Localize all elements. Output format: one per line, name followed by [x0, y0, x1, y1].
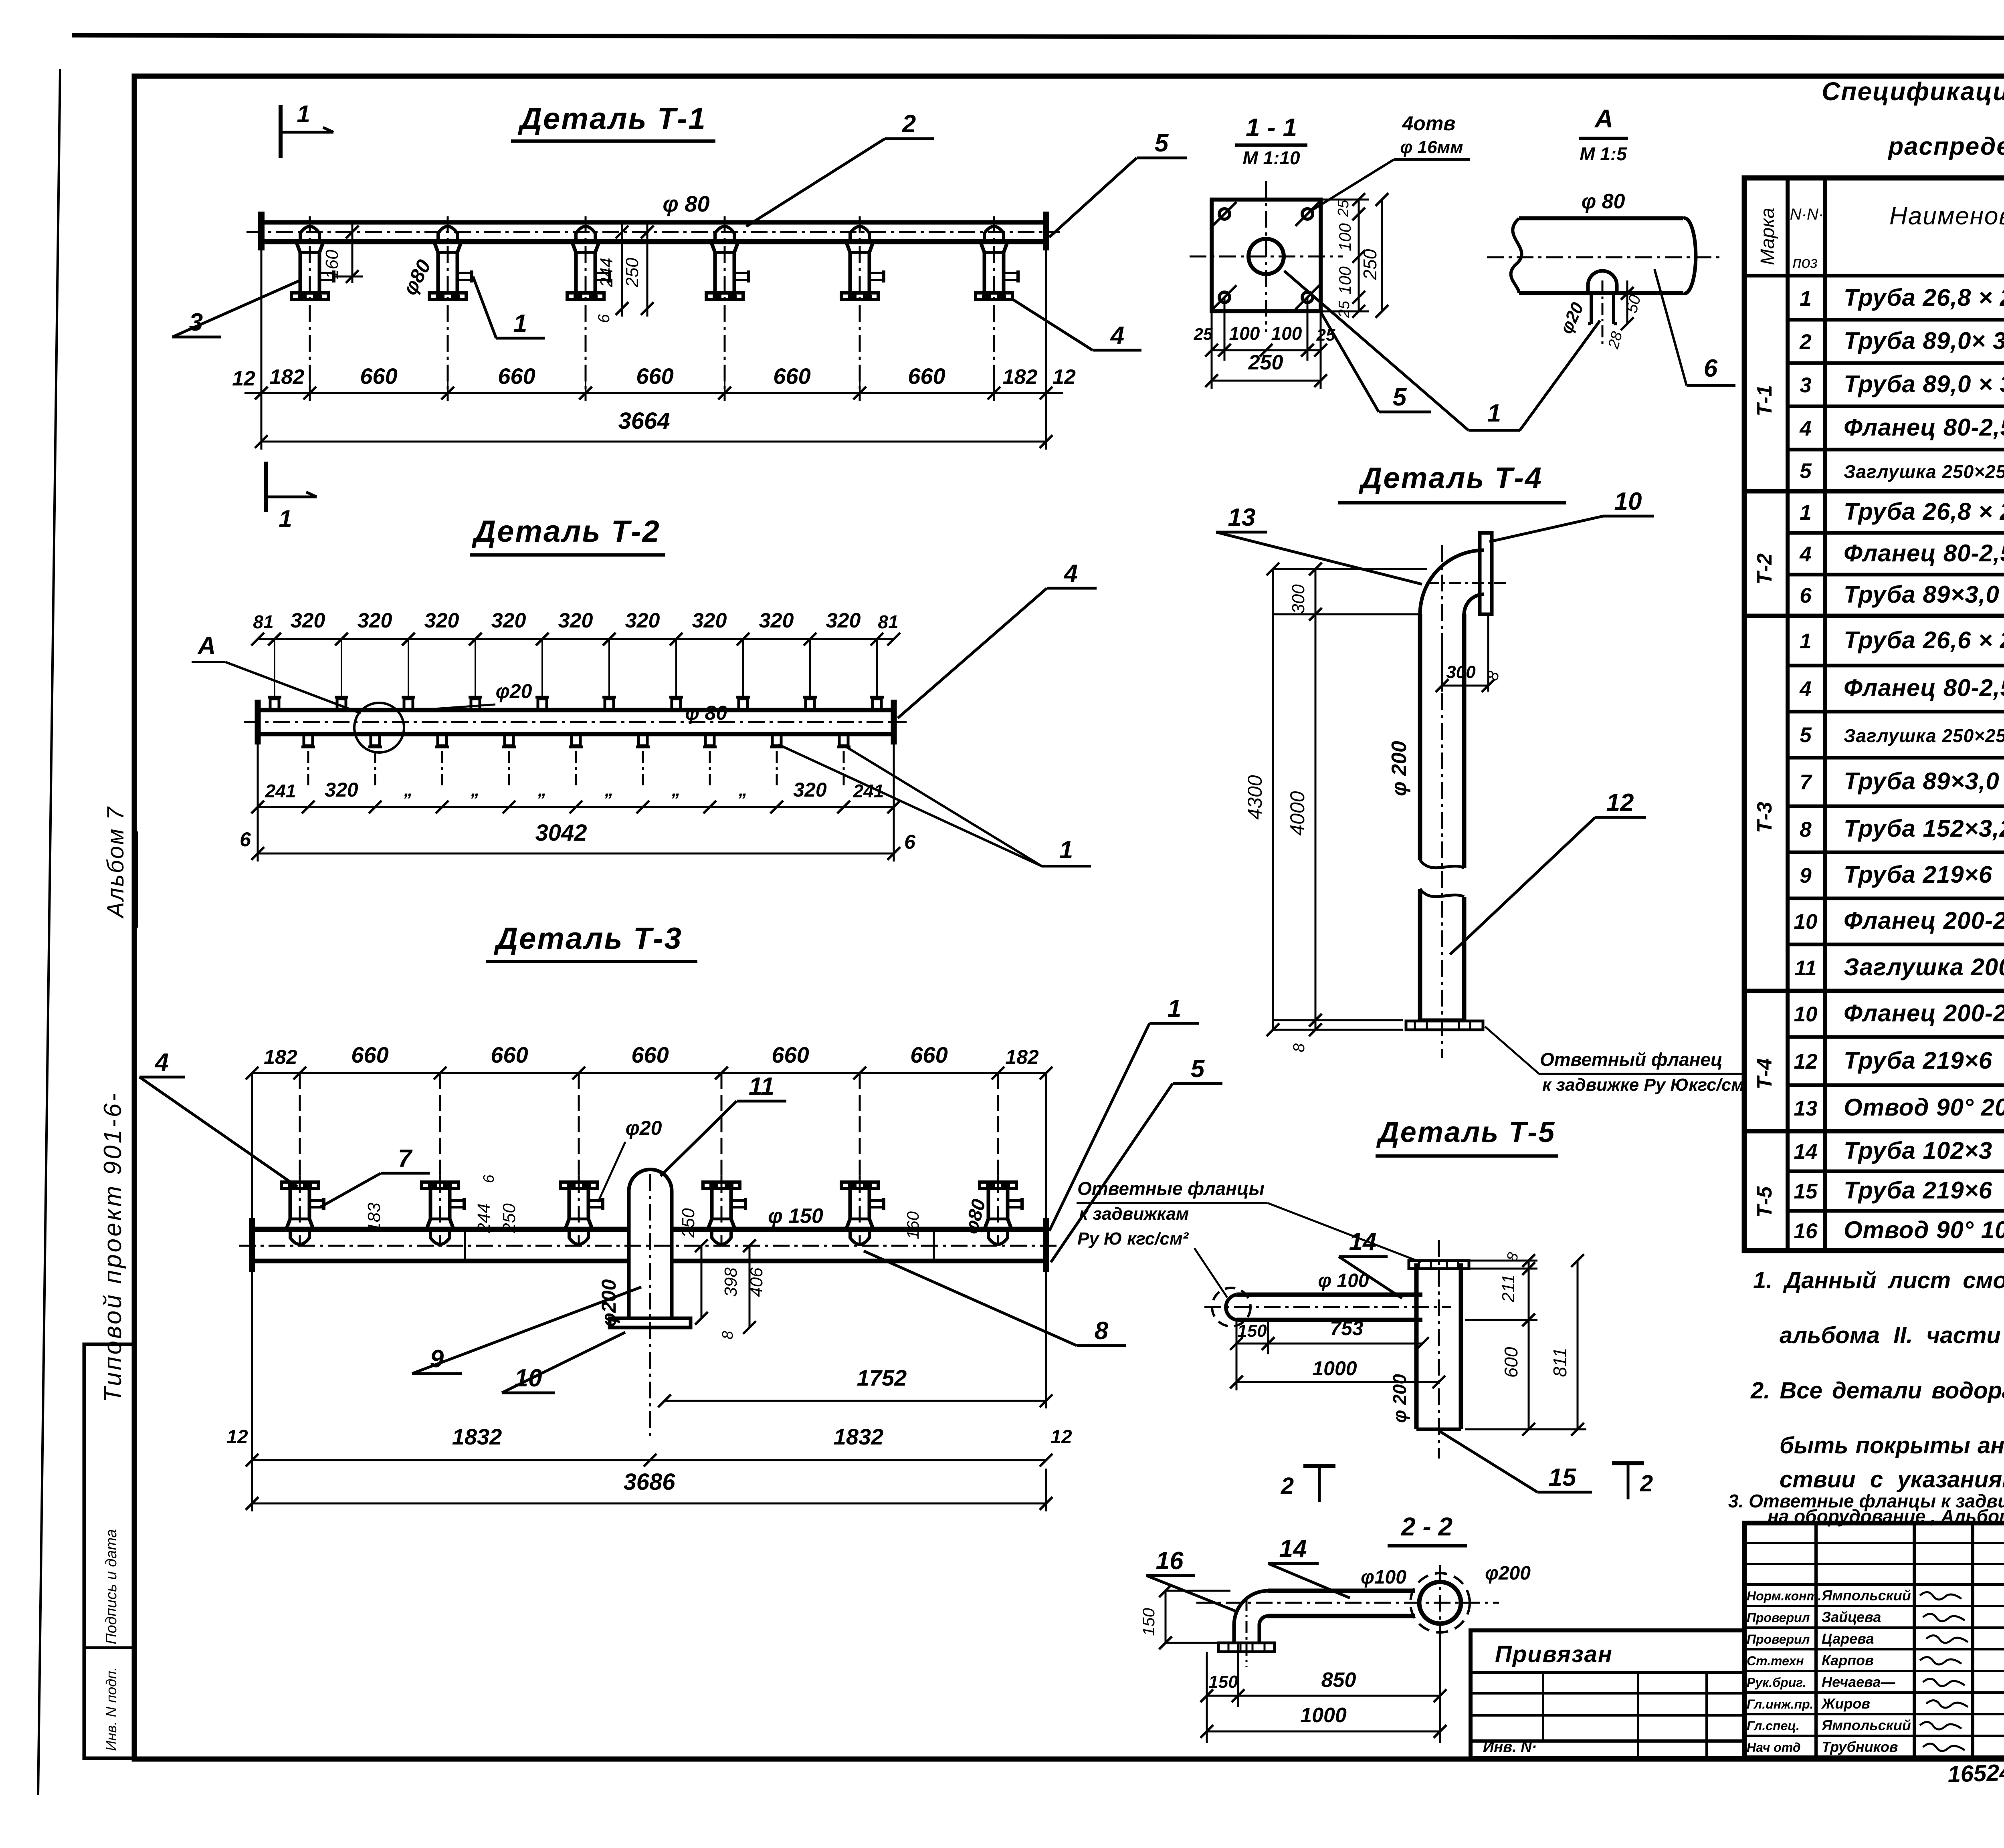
view A nozzle tube: [1590, 293, 1593, 324]
T-3 left end flange: [249, 1218, 255, 1272]
T-1 right end flange: [1043, 212, 1049, 250]
T-1 nozzle 2 bottom flange (item 4): [429, 293, 466, 299]
T-2 top nozzle 7: [672, 699, 681, 710]
T-3 riser centerline: [649, 1174, 651, 1438]
svg-text:100: 100: [1335, 266, 1354, 295]
svg-text:Заглушка 250×250; δ=12мм: Заглушка 250×250; δ=12мм: [1844, 461, 2004, 482]
T-1 nozzle 6 (item 3): [980, 242, 1008, 293]
section cut marker 1 lower: [264, 462, 268, 512]
svg-text:244: 244: [597, 258, 616, 287]
T-2 overall dimension 3042: [257, 743, 259, 861]
T-2 bottom nozzle 7: [705, 734, 714, 746]
T-5 dim 150 753: [1236, 1320, 1238, 1354]
svg-text:Отвод 90° 200 с32: Отвод 90° 200 с32: [1844, 1094, 2004, 1121]
T-5 vertical pipe centerline: [1438, 1240, 1440, 1459]
svg-text:150: 150: [1208, 1672, 1238, 1692]
svg-text:6: 6: [595, 314, 613, 323]
svg-text:1: 1: [1487, 399, 1501, 427]
svg-text:12: 12: [1050, 1426, 1072, 1448]
T-3 dim 1832+1832: [251, 1270, 253, 1469]
svg-text:15: 15: [1549, 1464, 1577, 1491]
T-4 top flange plate (item 10): [1480, 533, 1492, 614]
svg-text:6: 6: [904, 831, 916, 853]
svg-text:Труба 26,6 × 2,8: Труба 26,6 × 2,8: [1844, 627, 2004, 654]
svg-text:1: 1: [1800, 287, 1811, 311]
svg-text:„: „: [537, 780, 547, 800]
svg-text:753: 753: [1330, 1317, 1364, 1340]
svg-text:150: 150: [1237, 1321, 1267, 1341]
svg-text:4: 4: [1799, 543, 1811, 566]
svg-text:4: 4: [1799, 677, 1811, 701]
svg-text:Фланец 80-2,5: Фланец 80-2,5: [1844, 674, 2004, 701]
T-3 nozzle 1 centerline: [299, 1176, 301, 1246]
svg-text:2: 2: [1799, 330, 1811, 354]
svg-text:Труба 89,0× 3,0: Труба 89,0× 3,0: [1844, 327, 2004, 354]
svg-text:Ответные фланцы: Ответные фланцы: [1077, 1178, 1265, 1199]
T-3 pipe centerline: [239, 1245, 1060, 1247]
svg-text:альбома II. части 1 и 2.: альбома II. части 1 и 2.: [1780, 1322, 2004, 1348]
T-5 pipe left end cap: [1226, 1295, 1236, 1320]
svg-text:660: 660: [910, 1042, 947, 1067]
T-2 bottom nozzle 1: [304, 734, 313, 746]
2-2 bottom dims 150 850: [1206, 1652, 1208, 1743]
svg-text:320: 320: [826, 609, 861, 632]
T-3 riser bottom flange (item 10): [610, 1318, 691, 1327]
1-1 right total 250: [1381, 200, 1383, 311]
svg-text:660: 660: [360, 363, 397, 389]
svg-text:„: „: [404, 780, 413, 800]
svg-text:150: 150: [1139, 1608, 1158, 1636]
T-5 left end dashed flange circle: [1212, 1288, 1250, 1326]
2-2 centerlines: [1196, 1602, 1499, 1604]
T-2 bottom nozzle 4: [505, 734, 513, 746]
svg-text:1: 1: [513, 310, 527, 337]
svg-text:182: 182: [270, 365, 305, 389]
T-1 pipe centerline: [246, 231, 1060, 233]
svg-text:250: 250: [622, 258, 642, 288]
1-1 leader to item 1 (merged label below): [1284, 271, 1469, 430]
sheet left paper edge line: [38, 69, 60, 1795]
section marker 2 right: [1612, 1461, 1644, 1465]
svg-text:10: 10: [515, 1364, 542, 1392]
svg-text:Деталь Т-3: Деталь Т-3: [493, 922, 682, 956]
svg-text:поз: поз: [1793, 254, 1818, 271]
svg-text:Фланец 80-2,5: Фланец 80-2,5: [1844, 540, 2004, 567]
svg-text:5: 5: [1155, 129, 1169, 157]
svg-text:Т-5: Т-5: [1753, 1186, 1776, 1218]
spec table header bottom line: [1744, 274, 2004, 278]
svg-text:16524′-1 Г: 16524′-1 Г: [1947, 1757, 2004, 1787]
T-2 bottom dimension row 241+320x8+241: [258, 806, 894, 808]
svg-text:5: 5: [1800, 723, 1812, 747]
svg-text:6: 6: [240, 828, 251, 851]
svg-text:Подпись и дата: Подпись и дата: [103, 1529, 120, 1644]
svg-text:8: 8: [719, 1331, 736, 1339]
view A pipe phi80: [1519, 216, 1683, 220]
spec table column lines: [1786, 178, 1790, 1251]
svg-text:Деталь Т-2: Деталь Т-2: [471, 514, 660, 549]
T-3 main pipe phi150: [252, 1227, 629, 1232]
T-4 lower pipe: [1418, 889, 1422, 1020]
svg-text:Т-4: Т-4: [1753, 1058, 1776, 1089]
svg-text:Нечаева—: Нечаева—: [1822, 1674, 1895, 1690]
svg-text:3042: 3042: [535, 820, 587, 846]
svg-text:660: 660: [351, 1042, 388, 1067]
svg-text:14: 14: [1279, 1535, 1307, 1563]
T-2 top nozzle 8: [739, 699, 747, 710]
svg-text:Ру Ю кгс/см²: Ру Ю кгс/см²: [1077, 1229, 1189, 1249]
title block small top rows: [1744, 1542, 2004, 1544]
svg-text:Т-1: Т-1: [1753, 385, 1776, 416]
svg-text:13: 13: [1228, 504, 1256, 531]
T-3 dim 160 at nozzle 5: [933, 1229, 935, 1261]
svg-text:320: 320: [625, 609, 660, 632]
2-2 left dim 150: [1165, 1591, 1167, 1643]
T-1 nozzle 5 centerline: [859, 216, 861, 401]
svg-text:2 - 2: 2 - 2: [1401, 1512, 1452, 1541]
T-2 bottom nozzle 6: [638, 734, 647, 746]
T-3 dim 1752: [1045, 1270, 1047, 1408]
svg-text:100: 100: [1271, 323, 1302, 344]
T-3 top nozzle 5 (item 7): [841, 1182, 878, 1188]
dim 50 view A: [1626, 280, 1628, 325]
svg-text:М 1:10: М 1:10: [1242, 147, 1300, 168]
T-3 nozzle 2 spigot phi20: [450, 1199, 463, 1202]
view A pipe left break curve: [1511, 218, 1522, 293]
svg-text:250: 250: [499, 1203, 519, 1233]
svg-text:4300: 4300: [1244, 775, 1266, 819]
svg-text:Зайцева: Зайцева: [1822, 1609, 1881, 1625]
svg-text:11: 11: [749, 1073, 774, 1100]
svg-text:10: 10: [1794, 910, 1818, 934]
T-3 right end flange: [1043, 1218, 1049, 1272]
svg-text:1: 1: [1800, 501, 1811, 525]
T-5 pipe centerline: [1204, 1306, 1451, 1308]
T-3 nozzle 3 centerline: [578, 1176, 580, 1246]
svg-text:„: „: [471, 780, 480, 800]
svg-text:3686: 3686: [623, 1469, 675, 1495]
T-4 dim column 300 4000 8: [1315, 569, 1317, 1030]
svg-text:1000: 1000: [1312, 1357, 1357, 1380]
T-4 pipe break: [1420, 860, 1464, 868]
svg-text:811: 811: [1549, 1348, 1570, 1377]
svg-text:3664: 3664: [618, 408, 670, 434]
svg-text:φ 200: φ 200: [1389, 1374, 1410, 1423]
svg-text:1832: 1832: [452, 1424, 502, 1449]
svg-text:Привязан: Привязан: [1495, 1641, 1613, 1667]
svg-text:320: 320: [424, 609, 459, 632]
T-2 pipe centerline: [244, 721, 907, 723]
2-2 elbow pipe phi100: [1268, 1589, 1415, 1593]
svg-text:12: 12: [1053, 365, 1076, 389]
svg-text:1 - 1: 1 - 1: [1246, 113, 1297, 142]
T-3 nozzle 1 spigot phi20: [309, 1199, 323, 1202]
svg-text:16: 16: [1156, 1547, 1184, 1575]
1-1 right dims 25 100 100 25: [1321, 199, 1369, 201]
title block outer border: [1744, 1523, 2004, 1758]
left margin stamp strip box: [84, 1344, 134, 1758]
svg-text:2. Все детали водораспредели: 2. Все детали водораспределительной сист…: [1750, 1378, 2004, 1404]
sheet outer top edge line: [72, 35, 2004, 38]
T-1 nozzle 6 bottom flange (item 4): [976, 293, 1012, 299]
T-1 nozzle 3 centerline: [585, 216, 587, 401]
svg-text:81: 81: [253, 611, 273, 632]
svg-text:12: 12: [232, 367, 255, 390]
svg-text:211: 211: [1499, 1274, 1518, 1303]
title block staff column lines: [1814, 1523, 1818, 1758]
svg-text:φ 80: φ 80: [663, 191, 709, 216]
T-4 stub centerline: [1427, 582, 1507, 584]
svg-text:1832: 1832: [834, 1424, 884, 1449]
svg-text:9: 9: [430, 1345, 444, 1373]
T-2 top nozzle 5: [538, 699, 547, 710]
svg-text:N·N·: N·N·: [1790, 206, 1824, 223]
svg-text:Труба 26,8 × 2,8: Труба 26,8 × 2,8: [1844, 284, 2004, 311]
spec table outer border: [1744, 178, 2004, 1251]
svg-text:160: 160: [903, 1211, 922, 1239]
svg-text:11: 11: [1794, 956, 1816, 980]
T-2 bottom nozzle 2: [371, 734, 380, 746]
T-3 top nozzle 1 (item 7): [281, 1182, 318, 1188]
T-4 dim extensions: [1273, 568, 1427, 570]
svg-text:250: 250: [1360, 249, 1380, 280]
T-3 nozzle 4 centerline: [721, 1176, 723, 1246]
view A centerline: [1487, 256, 1719, 258]
svg-text:Инв. N подп.: Инв. N подп.: [103, 1667, 119, 1751]
T-2 bottom nozzle 8: [772, 734, 781, 746]
T-1 nozzle 3 (item 3): [572, 242, 599, 293]
svg-text:398: 398: [721, 1267, 741, 1297]
svg-text:8: 8: [1290, 1043, 1308, 1052]
T-1 nozzle 1 side spigot phi20 (item 1): [319, 272, 333, 274]
T-3 dim 250 right of riser: [701, 1246, 703, 1318]
T-1 dimension row 182+660x5+182: [309, 377, 311, 401]
svg-text:320: 320: [692, 609, 727, 632]
svg-text:1: 1: [297, 101, 310, 127]
svg-text:100: 100: [1335, 223, 1354, 251]
T-1 nozzle 1 bottom flange (item 4): [291, 293, 328, 299]
T-3 dims 183 244 250 at nozzle 2: [464, 1229, 466, 1261]
svg-text:100: 100: [1229, 323, 1260, 344]
T-2 top nozzle 2: [337, 699, 346, 710]
T-3 nozzle 6 spigot phi20: [1008, 1199, 1021, 1202]
svg-text:„: „: [738, 780, 747, 800]
svg-text:φ 80: φ 80: [685, 702, 727, 724]
svg-text:160: 160: [322, 250, 342, 279]
T-1 nozzle 4 bottom flange (item 4): [706, 293, 743, 299]
T-2 top nozzle 6: [605, 699, 614, 710]
svg-text:Заглушка 250×250;δ=12мм: Заглушка 250×250;δ=12мм: [1844, 725, 2004, 746]
T-1 left end flange: [258, 212, 265, 250]
T-3 nozzle 3 spigot phi20: [588, 1199, 602, 1202]
svg-text:φ20: φ20: [496, 680, 532, 702]
svg-text:Ямпольский: Ямпольский: [1821, 1717, 1911, 1733]
T-2 bottom nozzle 9: [839, 734, 848, 746]
T-1 nozzle 3 side spigot phi20 (item 1): [595, 272, 609, 274]
T-4 bend to horizontal stub: [1420, 550, 1484, 614]
T-1 small vertical dims 244 250: [621, 224, 623, 317]
svg-text:„: „: [671, 780, 681, 800]
svg-text:φ 80: φ 80: [1582, 190, 1625, 213]
svg-text:Заглушка 200 С40: Заглушка 200 С40: [1844, 954, 2004, 980]
svg-text:А: А: [197, 632, 216, 660]
svg-text:Альбом 7: Альбом 7: [103, 806, 129, 919]
svg-text:φ200: φ200: [1485, 1563, 1531, 1584]
svg-text:241: 241: [265, 781, 296, 801]
svg-text:5: 5: [1800, 459, 1812, 483]
T-3 nozzle 5 centerline: [859, 1176, 861, 1246]
svg-text:660: 660: [636, 363, 673, 389]
svg-text:к задвижке Ру Юкгс/см: к задвижке Ру Юкгс/см: [1542, 1075, 1744, 1095]
T-2 pipe phi80: [258, 708, 894, 712]
svg-text:Т-2: Т-2: [1753, 553, 1776, 585]
svg-text:4: 4: [154, 1049, 169, 1076]
svg-text:12: 12: [226, 1426, 248, 1448]
T-4 riser pipe phi200 vertical: [1418, 614, 1422, 860]
svg-text:2: 2: [1281, 1473, 1294, 1499]
T-1 nozzle 4 centerline: [724, 216, 726, 401]
T-2 right end flange: [891, 700, 897, 744]
svg-text:320: 320: [759, 609, 794, 632]
svg-text:10: 10: [1794, 1003, 1818, 1026]
svg-text:Трубников: Трубников: [1822, 1739, 1898, 1755]
svg-text:5: 5: [1191, 1055, 1205, 1083]
svg-text:1: 1: [1800, 629, 1811, 653]
T-1 nozzle 3 bottom flange (item 4): [567, 293, 604, 299]
svg-text:1: 1: [1059, 836, 1073, 864]
svg-text:16: 16: [1794, 1219, 1818, 1243]
svg-text:Труба 89,0 × 3,0: Труба 89,0 × 3,0: [1844, 371, 2004, 397]
T-5 right dims 8 211 600 811: [1465, 1260, 1537, 1262]
svg-text:25: 25: [1194, 325, 1213, 343]
view A nozzle dome: [1588, 271, 1617, 293]
T-3 top dimension row 182+660x5+182: [299, 1073, 301, 1178]
privyazan table outer: [1471, 1630, 1744, 1758]
svg-text:Типовой проект 901-6-: Типовой проект 901-6-: [99, 1091, 127, 1402]
T-3 dims 398 406 8: [749, 1246, 751, 1327]
svg-text:ствии с указаниями на листе: ствии с указаниями на листе КМ-1 альбома…: [1780, 1467, 2004, 1493]
svg-text:320: 320: [793, 779, 827, 801]
svg-text:660: 660: [772, 1042, 809, 1067]
svg-text:Фланец 200-2,5: Фланец 200-2,5: [1844, 907, 2004, 934]
svg-text:Труба 89×3,0: Труба 89×3,0: [1844, 581, 2000, 608]
svg-text:12: 12: [1794, 1050, 1818, 1073]
svg-text:Деталь Т-5: Деталь Т-5: [1376, 1116, 1556, 1148]
1-1 bolt holes: [1219, 209, 1230, 219]
title block staff row lines: [1744, 1605, 2004, 1607]
T-3 top nozzle 3 (item 7): [560, 1182, 597, 1188]
T-2 top nozzle 3: [404, 699, 413, 710]
T-4 centerline vertical: [1441, 545, 1443, 1058]
T-3 central riser phi200 with dome cap (item 11): [629, 1169, 672, 1191]
svg-text:Труба 26,8 × 2,8: Труба 26,8 × 2,8: [1844, 498, 2004, 525]
svg-text:Проверил: Проверил: [1747, 1610, 1810, 1625]
svg-text:1: 1: [1168, 995, 1181, 1023]
svg-text:Т-3: Т-3: [1753, 802, 1776, 833]
svg-text:Труба 219×6: Труба 219×6: [1844, 1177, 1992, 1204]
svg-text:Труба 152×3,2: Труба 152×3,2: [1844, 815, 2004, 842]
svg-text:Деталь Т-4: Деталь Т-4: [1358, 461, 1543, 494]
T-1 nozzle 2 side spigot phi20 (item 1): [457, 272, 471, 274]
section marker 2 left: [1303, 1464, 1335, 1468]
svg-text:4: 4: [1799, 417, 1811, 440]
T-2 top nozzle 10: [873, 699, 881, 710]
svg-text:320: 320: [325, 779, 358, 801]
svg-text:850: 850: [1321, 1668, 1356, 1692]
svg-text:14: 14: [1794, 1140, 1818, 1164]
svg-text:Ямпольский: Ямпольский: [1821, 1587, 1911, 1604]
svg-text:3: 3: [189, 309, 203, 336]
privyazan caption row: [1471, 1671, 1744, 1674]
svg-text:8: 8: [1800, 818, 1812, 841]
svg-text:Гл.спец.: Гл.спец.: [1747, 1719, 1800, 1733]
T-2 top dimension row 81+320x9+81: [258, 638, 894, 640]
svg-text:Гл.инж.пр.: Гл.инж.пр.: [1747, 1697, 1814, 1711]
T-3 top nozzle 6 (item 7): [980, 1182, 1016, 1188]
svg-text:6: 6: [1704, 355, 1718, 382]
svg-text:660: 660: [773, 363, 810, 389]
T-1 nozzle 1 centerline: [309, 216, 311, 401]
svg-text:1. Данный лист смотрите сов: 1. Данный лист смотрите совместно с лист…: [1753, 1267, 2004, 1293]
T-2 node A circle: [354, 703, 404, 753]
svg-text:182: 182: [1003, 365, 1038, 389]
section cut marker 1 upper: [279, 105, 283, 158]
svg-text:660: 660: [498, 363, 535, 389]
T-4 dim 300 horizontal at bend: [1441, 633, 1443, 692]
svg-text:81: 81: [878, 611, 898, 632]
svg-text:14: 14: [1349, 1228, 1377, 1256]
svg-text:Карпов: Карпов: [1822, 1652, 1874, 1668]
svg-text:к задвижкам: к задвижкам: [1079, 1204, 1189, 1224]
2-2 flange ring phi200: [1419, 1582, 1461, 1624]
svg-text:660: 660: [631, 1042, 669, 1067]
svg-text:320: 320: [291, 609, 325, 632]
T-5 leaders from note: [1267, 1203, 1421, 1262]
svg-text:320: 320: [358, 609, 392, 632]
svg-text:Деталь Т-1: Деталь Т-1: [517, 102, 706, 136]
1-1 centerlines: [1190, 256, 1343, 258]
svg-text:300: 300: [1289, 584, 1308, 614]
svg-text:9: 9: [1800, 864, 1812, 888]
svg-text:600: 600: [1501, 1347, 1521, 1378]
T-5 dim 1000: [1236, 1354, 1238, 1390]
T-1 nozzle 5 bottom flange (item 4): [841, 293, 878, 299]
svg-text:Проверил: Проверил: [1747, 1632, 1810, 1646]
T-3 nozzle 2 centerline: [439, 1176, 441, 1246]
2-2 bottom total 1000: [1207, 1731, 1440, 1733]
T-1 nozzle 1 (item 3): [296, 242, 323, 293]
T-1 header pipe phi80: [261, 220, 1046, 225]
T-4 dim column 4300: [1272, 569, 1274, 1030]
svg-text:φ 100: φ 100: [1318, 1270, 1369, 1291]
T-3 nozzle 6 centerline: [997, 1176, 999, 1246]
T-2 bottom nozzle 5: [572, 734, 580, 746]
svg-text:Рук.бриг.: Рук.бриг.: [1747, 1675, 1806, 1690]
T-1 nozzle 5 side spigot phi20 (item 1): [869, 272, 883, 274]
1-1 flange square plate: [1212, 200, 1321, 311]
svg-text:Труба 89×3,0: Труба 89×3,0: [1844, 768, 2000, 795]
svg-text:4000: 4000: [1286, 791, 1309, 835]
T-2 top nozzle 4: [471, 699, 480, 710]
svg-text:Труба 219×6: Труба 219×6: [1844, 861, 1992, 888]
svg-text:Ответный фланец: Ответный фланец: [1540, 1049, 1723, 1070]
svg-text:φ100: φ100: [1361, 1567, 1406, 1588]
T-1 nozzle 6 centerline: [993, 216, 995, 401]
svg-text:φ 150: φ 150: [768, 1204, 823, 1228]
T-3 top nozzle 2 (item 7): [422, 1182, 459, 1188]
T-3 overall dim 3686: [251, 1469, 253, 1511]
svg-text:Спецификация материалов на д: Спецификация материалов на детали Водо-: [1822, 77, 2004, 106]
